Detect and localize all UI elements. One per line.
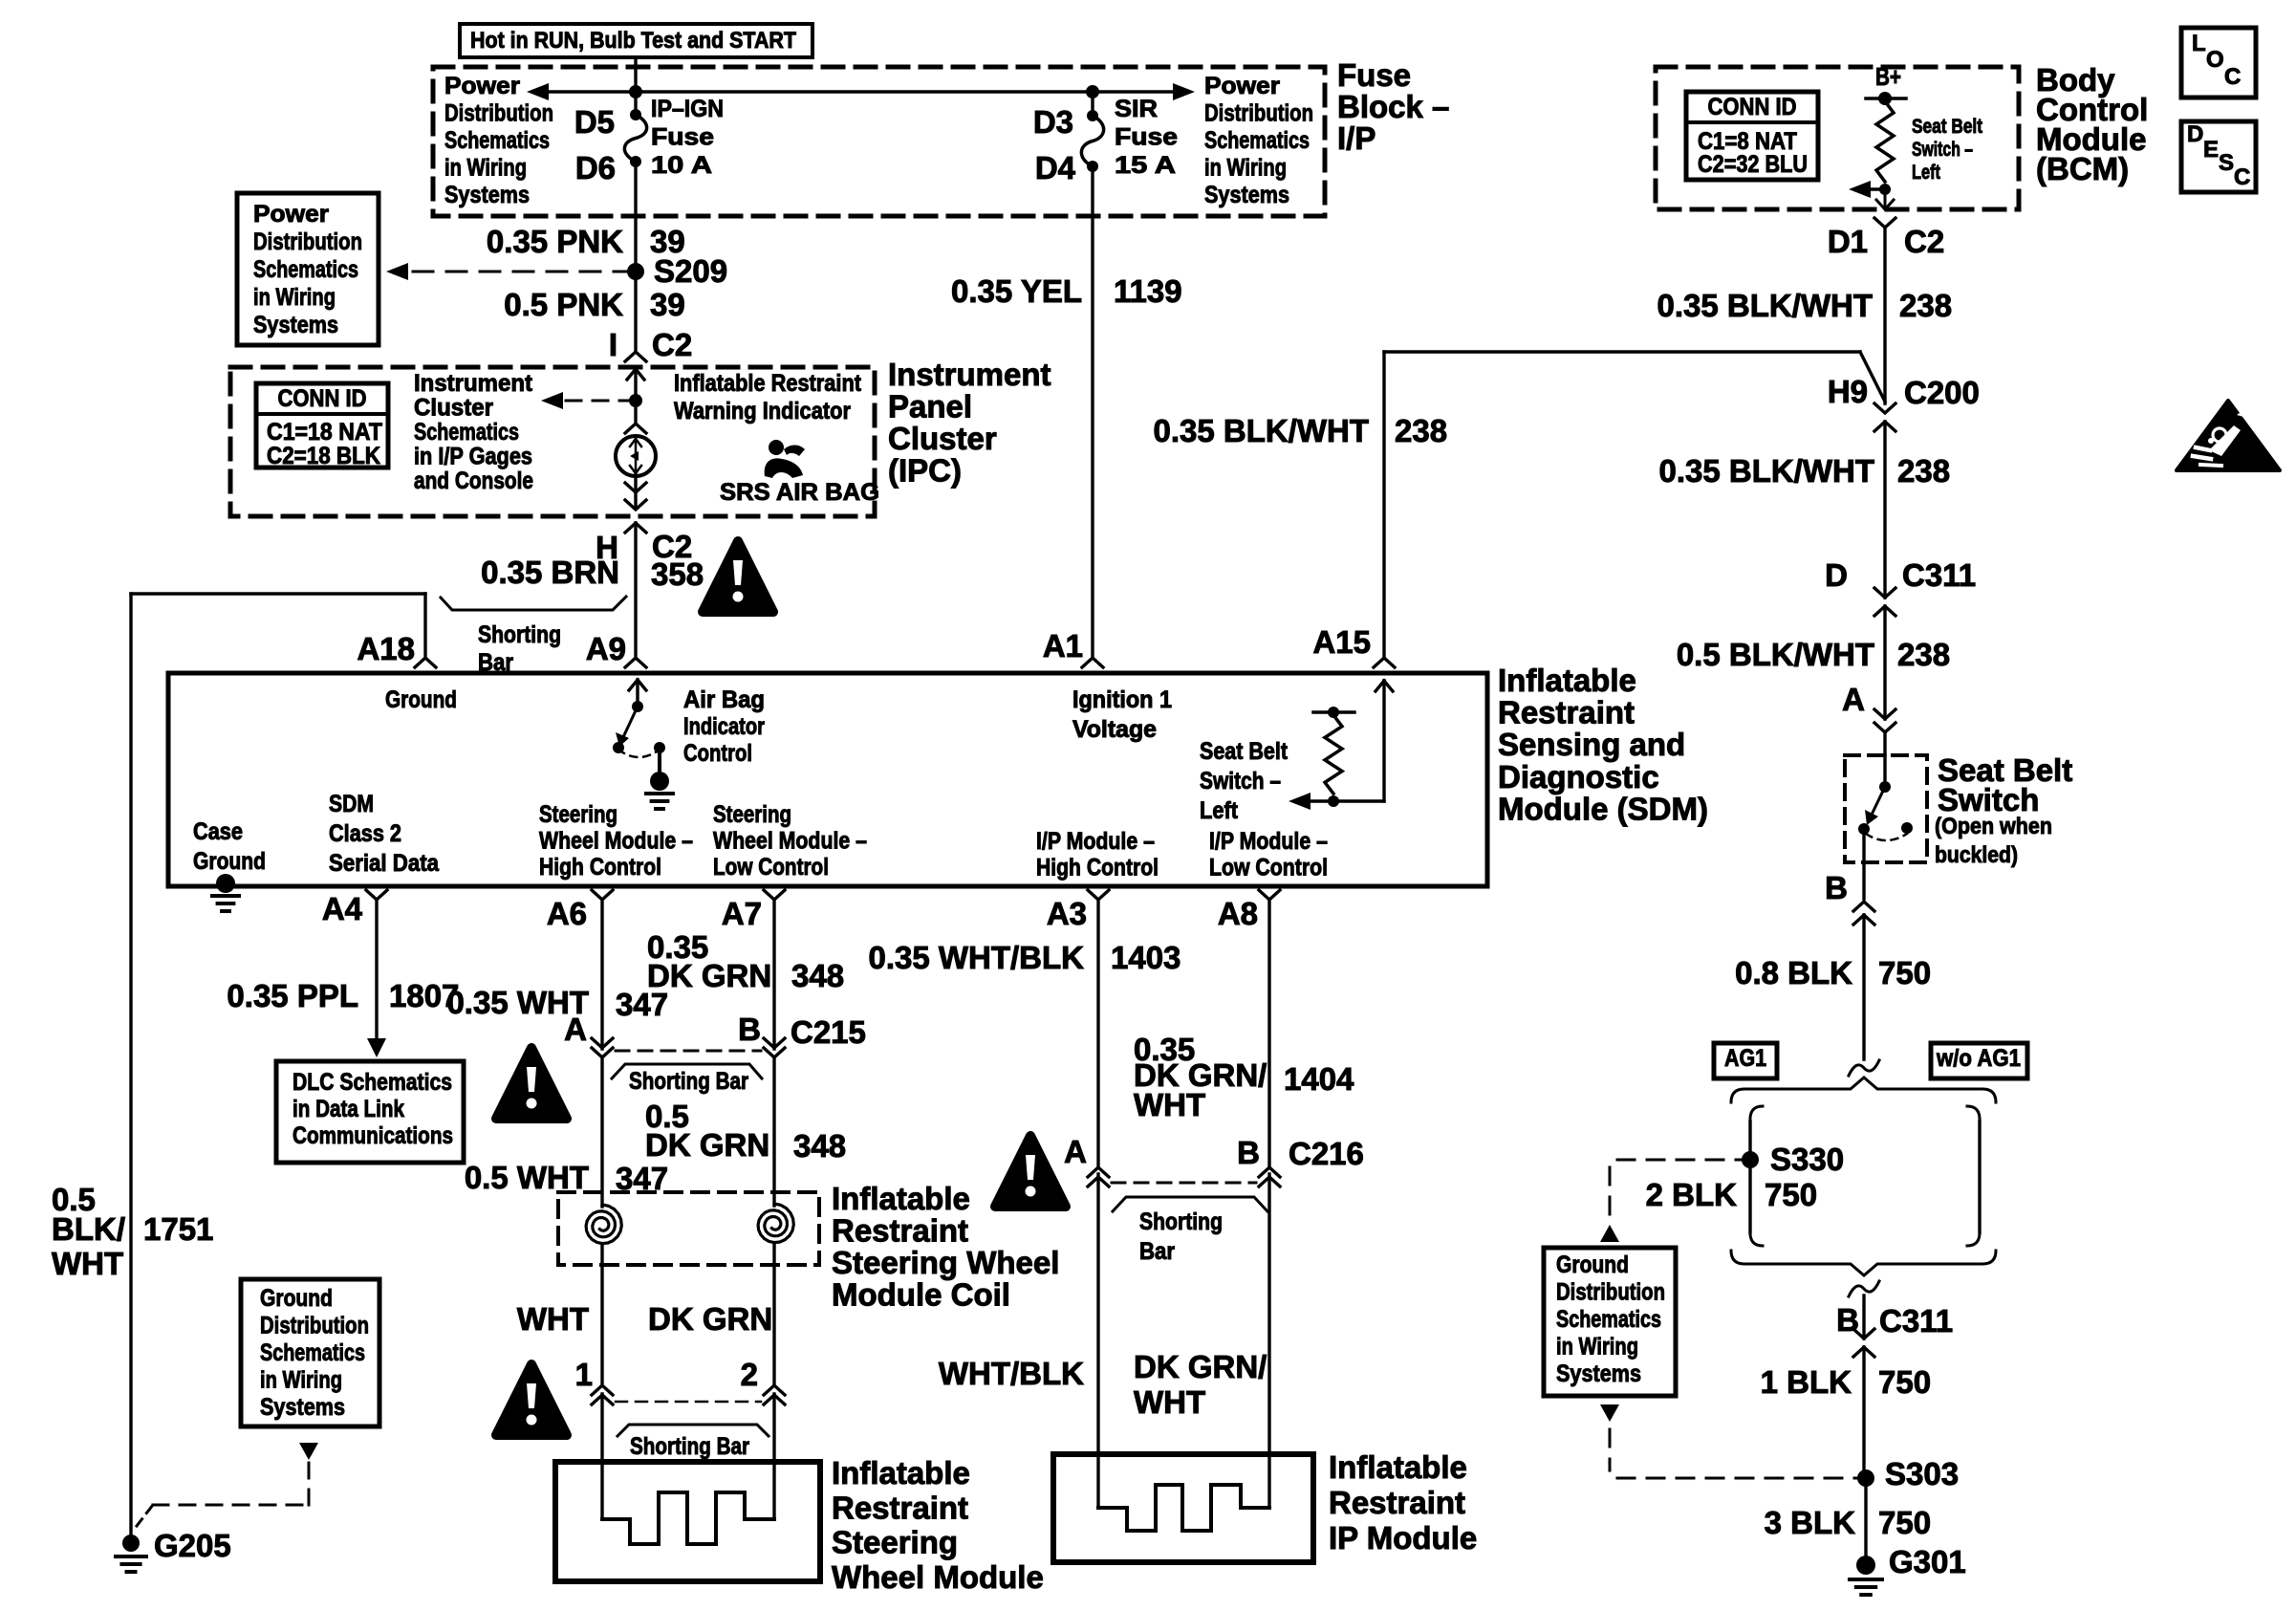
svg-text:Power: Power bbox=[1204, 73, 1280, 99]
svg-text:A1: A1 bbox=[1043, 628, 1083, 664]
wire 238 from BCM D1 to C200 bbox=[1883, 228, 1886, 403]
svg-text:0.35 WHT/BLK: 0.35 WHT/BLK bbox=[868, 940, 1084, 975]
coil L2 (steering wheel module coil, DK GRN side) bbox=[758, 1204, 793, 1243]
svg-text:Steering: Steering bbox=[832, 1525, 958, 1560]
svg-text:Module Coil: Module Coil bbox=[832, 1277, 1010, 1313]
svg-text:Ground: Ground bbox=[260, 1285, 333, 1312]
svg-text:Schematics: Schematics bbox=[1204, 127, 1310, 154]
svg-text:Fuse: Fuse bbox=[1115, 124, 1178, 151]
junction dot on indicator feed bbox=[629, 394, 642, 407]
svg-text:Schematics: Schematics bbox=[1556, 1306, 1661, 1333]
switch dashed travel arc bbox=[1866, 834, 1907, 840]
svg-text:I/P Module –: I/P Module – bbox=[1036, 828, 1155, 855]
SDM air bag indicator driver: entry arrow bbox=[636, 680, 639, 707]
svg-text:A6: A6 bbox=[547, 896, 587, 931]
inline connector C215 pin B bbox=[764, 1038, 785, 1048]
svg-text:A4: A4 bbox=[322, 891, 363, 926]
arrow to comparator (left) bbox=[1301, 799, 1333, 803]
AG1 branch wire 750 (with S330) bbox=[1750, 1106, 1763, 1121]
svg-text:Wheel Module –: Wheel Module – bbox=[713, 828, 867, 855]
svg-text:Restraint: Restraint bbox=[1498, 695, 1635, 730]
chevron at SDM pin A8 bbox=[1259, 890, 1280, 900]
svg-text:Left: Left bbox=[1912, 162, 1940, 184]
shorting bar bracket at C215 bbox=[612, 1064, 762, 1078]
inline connector C311 D bbox=[1874, 588, 1895, 598]
dashed connector body at module pins bbox=[616, 1401, 761, 1404]
svg-text:AG1: AG1 bbox=[1724, 1045, 1766, 1072]
wire 750 from switch B to option split bbox=[1862, 915, 1865, 1059]
svg-text:Systems: Systems bbox=[260, 1394, 345, 1421]
svg-text:Instrument: Instrument bbox=[414, 370, 533, 397]
wire 358 from IPC to SDM A9 bbox=[634, 523, 637, 658]
wire break at option split bbox=[1849, 1060, 1879, 1076]
svg-text:Low Control: Low Control bbox=[1209, 855, 1328, 882]
shorting bar bracket at module pins bbox=[617, 1425, 769, 1436]
svg-text:I: I bbox=[609, 327, 617, 362]
warning triangle note 4 bbox=[995, 1136, 1066, 1207]
svg-text:(BCM): (BCM) bbox=[2036, 151, 2129, 186]
svg-text:1403: 1403 bbox=[1111, 940, 1180, 975]
inflatable restraint sensing and diagnostic module SDM box bbox=[168, 673, 1487, 886]
svg-text:A: A bbox=[564, 1012, 587, 1047]
wire 238 riser from SDM A15 to C200 bbox=[1382, 352, 1385, 658]
connector chevron at IPC C2 entry bbox=[625, 352, 646, 361]
seat belt switch dashed outline bbox=[1845, 755, 1927, 862]
svg-text:Distribution: Distribution bbox=[444, 100, 553, 127]
BCM connector ID table bbox=[1686, 92, 1818, 180]
svg-text:15 A: 15 A bbox=[1115, 152, 1176, 179]
dashed reference from S330 to ground distribution box bbox=[1617, 1159, 1742, 1162]
driver internal ground dot bbox=[650, 772, 669, 791]
svg-text:A: A bbox=[1064, 1134, 1087, 1169]
resistor bottom dot bbox=[1328, 795, 1339, 807]
svg-text:S: S bbox=[2219, 150, 2234, 176]
shorting bar bracket at C216 bbox=[1113, 1197, 1267, 1211]
dashed reference from S303 to ground distribution box bbox=[1617, 1477, 1857, 1480]
wire break below option merge bbox=[1849, 1281, 1879, 1296]
svg-text:BLK/: BLK/ bbox=[52, 1211, 125, 1247]
svg-text:Cluster: Cluster bbox=[414, 395, 493, 422]
svg-text:IP–IGN: IP–IGN bbox=[651, 96, 724, 122]
splice S303 bbox=[1857, 1469, 1874, 1487]
svg-text:DK GRN: DK GRN bbox=[648, 1301, 772, 1337]
svg-text:1139: 1139 bbox=[1114, 273, 1182, 309]
chevron below BCM pin D1 bbox=[1874, 218, 1895, 228]
IP module connector castellation bbox=[1098, 1485, 1269, 1531]
svg-text:C215: C215 bbox=[791, 1014, 866, 1050]
SIR caution icon (triangle with occupant) bbox=[2177, 401, 2280, 470]
switch input wire bbox=[1883, 755, 1886, 787]
svg-text:348: 348 bbox=[791, 958, 844, 993]
svg-text:Module (SDM): Module (SDM) bbox=[1498, 791, 1708, 826]
wire from resistor to pin A15 inside SDM bbox=[1333, 799, 1384, 802]
svg-text:Restraint: Restraint bbox=[1329, 1485, 1465, 1520]
steering wheel module coil dashed outline bbox=[558, 1192, 819, 1265]
svg-text:D3: D3 bbox=[1033, 104, 1073, 140]
steering wheel module connector castellation bbox=[602, 1492, 774, 1544]
LOC reference box bbox=[2181, 28, 2256, 98]
svg-text:Distribution: Distribution bbox=[1556, 1279, 1665, 1306]
svg-text:D: D bbox=[1825, 557, 1848, 593]
switch fixed contact dot bbox=[1879, 781, 1891, 793]
inflatable restraint steering wheel module box bbox=[555, 1462, 820, 1581]
svg-text:Power: Power bbox=[444, 73, 520, 99]
svg-text:Fuse: Fuse bbox=[1337, 57, 1411, 93]
svg-text:Wheel Module: Wheel Module bbox=[832, 1559, 1044, 1595]
svg-text:C1=18 NAT: C1=18 NAT bbox=[267, 419, 382, 446]
inline connector pin 2 bbox=[764, 1385, 785, 1395]
wire 348 from A7 to C215 bbox=[772, 900, 775, 1049]
connector chevrons at switch pin A bbox=[1874, 709, 1895, 719]
fuse block I/P dashed outline bbox=[433, 67, 1325, 216]
svg-text:A3: A3 bbox=[1047, 896, 1087, 931]
svg-text:Air Bag: Air Bag bbox=[683, 686, 765, 713]
option tag box w/o AG1 bbox=[1931, 1043, 2027, 1078]
svg-text:0.5 PNK: 0.5 PNK bbox=[504, 287, 623, 322]
BCM seat belt pull-up resistor bbox=[1876, 101, 1894, 182]
svg-text:Ground: Ground bbox=[385, 686, 457, 713]
svg-text:Sensing and: Sensing and bbox=[1498, 727, 1685, 762]
svg-text:0.35 BLK/WHT: 0.35 BLK/WHT bbox=[1153, 413, 1369, 448]
chevron at SDM pin A6 bbox=[592, 890, 613, 900]
svg-text:Systems: Systems bbox=[1204, 182, 1289, 208]
wire 347 from A6 to C215 bbox=[600, 900, 603, 1049]
svg-text:Seat Belt: Seat Belt bbox=[1912, 116, 1982, 138]
inline connector C200 bbox=[1874, 403, 1895, 413]
svg-text:238: 238 bbox=[1395, 413, 1447, 448]
svg-text:0.35 PNK: 0.35 PNK bbox=[487, 224, 623, 259]
power distribution schematics reference box bbox=[237, 193, 379, 345]
svg-text:1404: 1404 bbox=[1284, 1061, 1354, 1097]
ground wire from SDM A18 bbox=[415, 658, 436, 667]
chevron at SDM pin A1 bbox=[1082, 658, 1103, 667]
shorting bar bracket at IPC connector bbox=[441, 597, 626, 610]
svg-text:S209: S209 bbox=[654, 253, 727, 289]
svg-text:Block –: Block – bbox=[1337, 89, 1449, 124]
svg-text:G205: G205 bbox=[154, 1528, 231, 1563]
dashed reference from ground distribution box to G205 bbox=[299, 1443, 318, 1460]
svg-text:Restraint: Restraint bbox=[832, 1490, 968, 1525]
switch arm bbox=[1872, 787, 1885, 815]
svg-text:1751: 1751 bbox=[143, 1211, 213, 1247]
svg-text:B+: B+ bbox=[1875, 62, 1901, 91]
svg-text:750: 750 bbox=[1878, 1505, 1931, 1540]
svg-text:Steering: Steering bbox=[713, 801, 791, 828]
svg-text:I/P Module –: I/P Module – bbox=[1209, 828, 1328, 855]
wire to warning indicator lamp bbox=[634, 401, 637, 422]
wire pin2 into module bbox=[772, 1394, 775, 1519]
air bag icon bbox=[769, 440, 784, 455]
instrument panel cluster dashed outline bbox=[230, 367, 875, 516]
svg-text:B: B bbox=[738, 1012, 761, 1047]
svg-text:(Open when: (Open when bbox=[1935, 814, 2052, 839]
svg-text:Diagnostic: Diagnostic bbox=[1498, 759, 1659, 795]
wire 347 from C215 to coil bbox=[600, 1057, 603, 1207]
svg-text:Switch –: Switch – bbox=[1912, 139, 1973, 161]
svg-text:IP Module: IP Module bbox=[1329, 1520, 1477, 1556]
svg-text:Seat Belt: Seat Belt bbox=[1200, 738, 1289, 765]
svg-text:Case: Case bbox=[193, 818, 243, 845]
svg-text:Steering: Steering bbox=[539, 801, 617, 828]
svg-text:A: A bbox=[1842, 682, 1865, 717]
svg-text:Inflatable: Inflatable bbox=[1329, 1449, 1467, 1485]
wire 750 to connector C311 B bbox=[1862, 1295, 1865, 1339]
svg-text:Shorting: Shorting bbox=[1139, 1208, 1223, 1235]
svg-text:and Console: and Console bbox=[414, 468, 533, 494]
svg-text:Panel: Panel bbox=[888, 389, 972, 425]
svg-text:SIR: SIR bbox=[1115, 96, 1158, 122]
svg-text:Inflatable: Inflatable bbox=[1498, 663, 1636, 698]
option split bracket (top) bbox=[1731, 1078, 1996, 1102]
svg-text:0.35 PPL: 0.35 PPL bbox=[227, 978, 358, 1013]
svg-text:238: 238 bbox=[1897, 637, 1950, 672]
svg-text:Systems: Systems bbox=[1556, 1361, 1641, 1387]
svg-text:High Control: High Control bbox=[1036, 855, 1159, 882]
dashed connector body C216 bbox=[1112, 1182, 1256, 1185]
svg-text:Ignition 1: Ignition 1 bbox=[1072, 686, 1172, 713]
svg-text:0.8 BLK: 0.8 BLK bbox=[1735, 955, 1852, 991]
driver switch arm with arrowhead bbox=[623, 707, 638, 737]
svg-text:Switch –: Switch – bbox=[1200, 768, 1281, 795]
svg-text:Low Control: Low Control bbox=[713, 854, 829, 881]
svg-text:Class 2: Class 2 bbox=[329, 820, 401, 847]
svg-text:DLC Schematics: DLC Schematics bbox=[292, 1069, 452, 1096]
wire from hot feed into fuse block bbox=[634, 57, 637, 92]
svg-text:Distribution: Distribution bbox=[1204, 100, 1313, 127]
wire 39 from S209 to IPC connector C2 bbox=[634, 272, 637, 352]
case ground symbol bbox=[212, 894, 239, 898]
inline connector pin 1 bbox=[592, 1385, 613, 1395]
svg-text:D6: D6 bbox=[575, 150, 616, 185]
svg-text:SDM: SDM bbox=[329, 791, 374, 817]
svg-text:DK GRN/: DK GRN/ bbox=[1134, 1349, 1267, 1384]
svg-text:in Wiring: in Wiring bbox=[260, 1367, 342, 1394]
svg-text:Control: Control bbox=[683, 740, 752, 767]
svg-text:Power: Power bbox=[253, 201, 329, 228]
svg-text:A7: A7 bbox=[722, 896, 762, 931]
svg-text:G301: G301 bbox=[1889, 1544, 1966, 1579]
svg-text:1 BLK: 1 BLK bbox=[1761, 1364, 1852, 1400]
svg-text:SRS AIR BAG: SRS AIR BAG bbox=[720, 479, 879, 506]
switch output wire to pin B bbox=[1862, 829, 1865, 899]
svg-text:in I/P Gages: in I/P Gages bbox=[414, 444, 532, 470]
svg-text:Shorting Bar: Shorting Bar bbox=[630, 1433, 749, 1460]
wire 39 from fuse D6 to S209 bbox=[634, 162, 637, 272]
inline connector C311 B bbox=[1853, 1329, 1874, 1339]
svg-text:B: B bbox=[1825, 870, 1848, 905]
chevron at SDM pin A15 bbox=[1374, 658, 1395, 667]
BCM output down arrow at pin D1 bbox=[1884, 189, 1887, 207]
wire WHT/BLK from C216 to IP module bbox=[1096, 1174, 1099, 1508]
svg-text:358: 358 bbox=[651, 556, 704, 592]
svg-text:C: C bbox=[2224, 64, 2241, 90]
svg-text:Voltage: Voltage bbox=[1072, 716, 1157, 743]
wire 1404 from A8 to C216 bbox=[1267, 900, 1270, 1165]
wire 238 from C311 to seat belt switch bbox=[1883, 606, 1886, 719]
svg-text:0.35 BLK/WHT: 0.35 BLK/WHT bbox=[1658, 453, 1874, 489]
svg-text:in Data Link: in Data Link bbox=[292, 1096, 404, 1122]
svg-text:Restraint: Restraint bbox=[832, 1213, 968, 1249]
svg-text:in Wiring: in Wiring bbox=[1204, 155, 1287, 182]
svg-text:C216: C216 bbox=[1289, 1136, 1364, 1171]
svg-text:High Control: High Control bbox=[539, 854, 661, 881]
splice S209 bbox=[627, 263, 644, 280]
svg-text:C2: C2 bbox=[1904, 224, 1944, 259]
svg-text:Systems: Systems bbox=[253, 312, 338, 338]
svg-text:A8: A8 bbox=[1218, 896, 1258, 931]
svg-text:S303: S303 bbox=[1885, 1456, 1959, 1491]
resistor bottom dot bbox=[1879, 184, 1891, 195]
w/o AG1 branch wire 750 bbox=[1967, 1106, 1980, 1121]
inline connector C216 pin B bbox=[1259, 1167, 1280, 1177]
svg-text:Systems: Systems bbox=[444, 182, 530, 208]
svg-text:D4: D4 bbox=[1035, 150, 1076, 185]
svg-text:Instrument: Instrument bbox=[888, 357, 1051, 392]
connector chevron below IPC (H C2) bbox=[625, 523, 646, 533]
class 2 serial data wire 1807 bbox=[375, 900, 378, 1042]
svg-text:0.35 BRN: 0.35 BRN bbox=[481, 555, 619, 590]
svg-text:Shorting Bar: Shorting Bar bbox=[629, 1068, 748, 1095]
svg-text:Inflatable Restraint: Inflatable Restraint bbox=[674, 370, 862, 397]
wire 238 from C200 to C311 bbox=[1883, 422, 1886, 598]
svg-text:Wheel Module –: Wheel Module – bbox=[539, 828, 693, 855]
svg-text:Schematics: Schematics bbox=[260, 1339, 365, 1366]
wire 348 from C215 to coil bbox=[772, 1057, 775, 1206]
ground distribution schematics reference box (left) bbox=[241, 1279, 379, 1426]
SDM seat belt input resistor top bar bbox=[1313, 710, 1354, 714]
svg-text:Bar: Bar bbox=[1139, 1238, 1175, 1265]
junction on bus at SIR fuse bbox=[1086, 85, 1099, 98]
wire into IPC with entry arrow bbox=[634, 369, 637, 401]
svg-text:Indicator: Indicator bbox=[683, 713, 765, 740]
svg-text:WHT: WHT bbox=[1134, 1087, 1205, 1122]
junction on bus at IP-IGN fuse bbox=[629, 85, 642, 98]
svg-text:0.5 BLK/WHT: 0.5 BLK/WHT bbox=[1677, 637, 1874, 672]
svg-text:C200: C200 bbox=[1904, 375, 1980, 410]
svg-text:Inflatable: Inflatable bbox=[832, 1455, 970, 1491]
svg-text:39: 39 bbox=[650, 287, 685, 322]
svg-text:Cluster: Cluster bbox=[888, 421, 997, 456]
svg-text:CONN ID: CONN ID bbox=[1708, 94, 1797, 120]
coil L1 (steering wheel module coil, WHT side) bbox=[586, 1205, 621, 1244]
svg-text:in Wiring: in Wiring bbox=[1556, 1334, 1638, 1361]
connector chevrons at switch pin B bbox=[1853, 902, 1874, 911]
wire WHT from coil to pin 1 bbox=[600, 1245, 603, 1385]
driver switch right contact dot bbox=[654, 742, 665, 753]
power bus wire inside fuse block bbox=[541, 90, 1182, 94]
svg-text:Schematics: Schematics bbox=[253, 256, 358, 283]
svg-text:B: B bbox=[1237, 1135, 1260, 1170]
svg-text:3 BLK: 3 BLK bbox=[1765, 1505, 1856, 1540]
indicator warning lamp bulb symbol bbox=[616, 436, 656, 476]
svg-text:1: 1 bbox=[575, 1357, 593, 1392]
warning triangle note 2 bbox=[496, 1048, 567, 1119]
svg-text:C: C bbox=[2234, 164, 2250, 190]
ground G301 bbox=[1856, 1556, 1875, 1575]
warning triangle note 3 bbox=[496, 1364, 567, 1435]
arrow to power distribution (right) bbox=[1173, 83, 1195, 100]
warning triangle note 1 bbox=[703, 541, 773, 612]
svg-text:Warning Indicator: Warning Indicator bbox=[674, 398, 851, 425]
svg-text:348: 348 bbox=[793, 1128, 846, 1164]
inline connector C216 pin A bbox=[1088, 1167, 1109, 1177]
svg-text:C311: C311 bbox=[1902, 557, 1976, 593]
svg-text:E: E bbox=[2203, 137, 2219, 163]
svg-text:D1: D1 bbox=[1828, 224, 1868, 259]
wire 750 from C311 B to S303 bbox=[1862, 1347, 1865, 1478]
svg-text:Serial Data: Serial Data bbox=[329, 850, 440, 877]
svg-text:WHT: WHT bbox=[52, 1246, 123, 1281]
dashed reference wire from S209 to power distribution box bbox=[413, 271, 626, 273]
svg-text:buckled): buckled) bbox=[1935, 842, 2018, 868]
fuse F1 IP-IGN Fuse 10 A bbox=[634, 92, 637, 115]
case ground dot on SDM edge bbox=[216, 874, 235, 893]
svg-text:Shorting: Shorting bbox=[478, 621, 561, 648]
svg-text:w/o AG1: w/o AG1 bbox=[1936, 1045, 2021, 1072]
svg-text:WHT/BLK: WHT/BLK bbox=[939, 1356, 1084, 1391]
svg-text:I/P: I/P bbox=[1337, 120, 1375, 156]
SDM seat belt pull-up resistor bbox=[1325, 715, 1342, 794]
svg-text:H9: H9 bbox=[1828, 374, 1868, 409]
svg-text:C311: C311 bbox=[1879, 1303, 1953, 1339]
DESC reference box bbox=[2181, 121, 2256, 192]
wire 750 from S303 to G301 bbox=[1864, 1478, 1867, 1558]
wire 1403 from A3 to C216 bbox=[1096, 900, 1099, 1165]
svg-text:750: 750 bbox=[1878, 955, 1931, 991]
svg-text:in Wiring: in Wiring bbox=[253, 284, 336, 311]
svg-text:Distribution: Distribution bbox=[260, 1313, 369, 1339]
body control module dashed outline bbox=[1656, 67, 2019, 209]
svg-text:2: 2 bbox=[741, 1357, 758, 1392]
svg-text:DK GRN: DK GRN bbox=[645, 1127, 769, 1163]
svg-text:238: 238 bbox=[1897, 453, 1950, 489]
inflatable restraint IP module box bbox=[1053, 1454, 1313, 1562]
ground distribution schematics reference box (right) bbox=[1544, 1248, 1676, 1396]
svg-text:A18: A18 bbox=[357, 631, 415, 666]
B+ feed bar and dot bbox=[1866, 97, 1906, 100]
svg-text:Ground: Ground bbox=[1556, 1252, 1629, 1278]
option split bracket (bottom) bbox=[1731, 1251, 1996, 1275]
svg-text:in Wiring: in Wiring bbox=[444, 155, 527, 182]
wire DK GRN from coil to pin 2 bbox=[772, 1244, 775, 1385]
wire 1139 from SIR fuse to SDM A1 bbox=[1091, 166, 1094, 658]
chevron at SDM pin A4 bbox=[366, 890, 387, 900]
svg-text:Distribution: Distribution bbox=[253, 229, 362, 255]
switch alternate contact dot bbox=[1901, 822, 1913, 834]
chevron at SDM pin A3 bbox=[1088, 890, 1109, 900]
DLC schematics reference box bbox=[276, 1061, 464, 1163]
svg-text:Steering Wheel: Steering Wheel bbox=[832, 1245, 1059, 1280]
chevron at SDM pin A7 bbox=[764, 890, 785, 900]
svg-text:Switch: Switch bbox=[1938, 782, 2039, 817]
svg-text:Inflatable: Inflatable bbox=[832, 1181, 970, 1216]
arrow to BCM logic (left) bbox=[1858, 187, 1885, 191]
svg-text:CONN ID: CONN ID bbox=[278, 385, 367, 412]
svg-text:Fuse: Fuse bbox=[651, 124, 714, 151]
svg-text:10 A: 10 A bbox=[651, 152, 712, 179]
dashed reference arrow to cluster schematics bbox=[566, 400, 631, 403]
svg-text:Ground: Ground bbox=[193, 848, 266, 875]
driver switch upper contact dot bbox=[632, 701, 643, 712]
ground wire 1751 from SDM A18 to G205 bbox=[129, 594, 132, 1534]
IPC connector ID table bbox=[256, 383, 388, 468]
svg-text:C2=32 BLU: C2=32 BLU bbox=[1698, 151, 1808, 178]
power feed label box "Hot in RUN, Bulb Test and START" bbox=[460, 24, 812, 57]
svg-text:0.35 YEL: 0.35 YEL bbox=[951, 273, 1082, 309]
svg-text:0.5 WHT: 0.5 WHT bbox=[465, 1160, 589, 1195]
svg-text:C2: C2 bbox=[652, 327, 692, 362]
svg-text:238: 238 bbox=[1899, 288, 1952, 323]
